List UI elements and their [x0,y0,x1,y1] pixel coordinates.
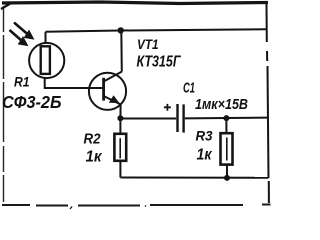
transistor VT1 [89,72,126,110]
svg-text:С1: С1 [183,80,195,97]
resistor R3 [221,133,233,164]
capacitor C1 [178,104,184,133]
svg-text:R1: R1 [14,74,30,90]
junction dot emitter node [117,115,123,121]
plus sign [164,104,171,111]
svg-text:1к: 1к [86,149,103,166]
wire: emitter down [119,105,121,119]
wire: R1 top lead [45,32,47,44]
wire: R3 bottom lead [226,165,228,178]
svg-text:R2: R2 [84,132,101,148]
junction dot collector/top rail [118,27,124,33]
wire: R1 bottom lead to base [45,78,103,88]
wire: bottom rail [120,177,268,179]
wire: top rail [46,29,267,32]
svg-text:R3: R3 [196,128,213,144]
wire: R2 bottom lead [119,161,121,178]
junction dot R3 top [223,115,229,121]
wire: R3 top lead [225,118,227,133]
svg-text:СФ3-2Б: СФ3-2Б [2,92,62,112]
wire: collector to top rail [120,30,123,71]
junction dot R3 bottom [224,175,230,181]
wire: mid rail right (C1 to right rail) [185,117,268,120]
svg-text:КТ315Г: КТ315Г [137,54,182,71]
wire: mid rail left (emitter to C1) [120,118,176,120]
svg-text:1к: 1к [197,147,213,164]
resistor R2 [114,134,126,161]
light arrow 2 [10,30,28,46]
wire: R2 top lead [119,118,121,133]
light arrow 1 [14,23,34,40]
svg-text:VT1: VT1 [137,36,159,52]
photoresistor R1 [29,43,64,78]
svg-text:1мк×15В: 1мк×15В [195,96,248,113]
